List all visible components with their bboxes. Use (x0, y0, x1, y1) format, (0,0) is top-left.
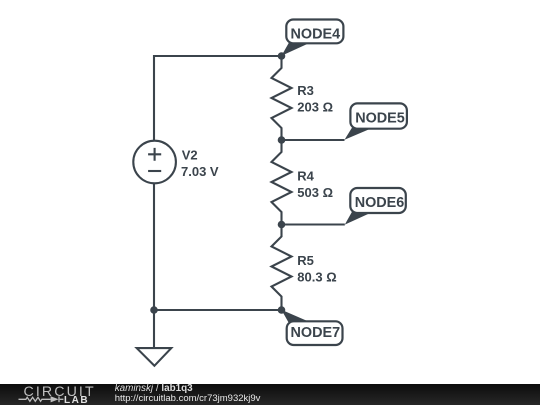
svg-text:R5: R5 (297, 253, 314, 268)
svg-text:7.03 V: 7.03 V (181, 164, 219, 179)
svg-text:203 Ω: 203 Ω (297, 100, 333, 115)
svg-text:LAB: LAB (64, 395, 89, 405)
svg-text:NODE4: NODE4 (291, 27, 341, 43)
svg-text:NODE5: NODE5 (355, 110, 405, 126)
svg-text:R4: R4 (297, 169, 314, 184)
svg-text:R3: R3 (297, 83, 314, 98)
svg-text:NODE7: NODE7 (291, 325, 341, 341)
svg-text:NODE6: NODE6 (355, 195, 405, 211)
svg-text:503 Ω: 503 Ω (297, 185, 333, 200)
svg-text:http://circuitlab.com/cr73jm93: http://circuitlab.com/cr73jm932kj9v (115, 393, 261, 404)
svg-text:V2: V2 (182, 147, 198, 162)
svg-text:80.3 Ω: 80.3 Ω (297, 270, 336, 285)
